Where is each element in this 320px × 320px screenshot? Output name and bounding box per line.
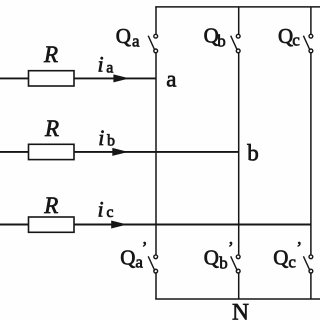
svg-text:a: a: [166, 67, 176, 92]
wire: leg 2 lower segment: [238, 273, 240, 299]
resistor R (phase a): [29, 71, 75, 86]
wire: phase b line: [0, 151, 239, 153]
svg-text:c: c: [288, 253, 296, 272]
wire: leg 1 upper segment: [155, 7, 157, 35]
svg-text:a: a: [132, 31, 140, 50]
svg-text:b: b: [247, 141, 258, 166]
switch Qa blade: [148, 36, 155, 51]
svg-text:N: N: [232, 299, 249, 320]
switch Qb' upper contact: [236, 255, 240, 259]
switch Qb upper contact: [236, 34, 240, 38]
switch Qc' blade: [303, 256, 310, 270]
wire: leg 1 middle segment: [155, 53, 157, 255]
wire: positive DC rail (top): [155, 6, 320, 8]
wire: leg 3 upper segment: [310, 7, 312, 35]
svg-text:Q: Q: [120, 245, 135, 269]
svg-text:Q: Q: [116, 24, 131, 48]
wire: negative DC rail (bottom, node N): [155, 298, 320, 300]
svg-text:’: ’: [296, 238, 302, 257]
svg-text:i: i: [98, 125, 104, 150]
switch Qa' blade: [148, 256, 155, 270]
svg-text:c: c: [292, 31, 300, 50]
wire: phase a line: [0, 77, 156, 79]
wire: leg 3 lower segment: [310, 273, 312, 299]
svg-text:i: i: [98, 52, 104, 77]
switch Qa upper contact: [154, 34, 158, 38]
svg-text:c: c: [106, 204, 113, 221]
wire: phase c line: [0, 224, 311, 226]
wire: leg 3 middle segment: [310, 53, 312, 255]
wire: leg 1 lower segment: [155, 273, 157, 299]
switch Qb' lower contact: [236, 269, 240, 273]
switch Qc upper contact: [309, 34, 313, 38]
svg-text:b: b: [107, 132, 115, 149]
switch Qc' lower contact: [309, 269, 313, 273]
wire: leg 2 middle segment: [238, 53, 240, 255]
svg-text:b: b: [219, 253, 228, 272]
arrow: current ic: [111, 221, 127, 229]
svg-text:a: a: [106, 60, 113, 77]
svg-text:Q: Q: [204, 245, 219, 269]
switch Qc blade: [303, 36, 310, 51]
svg-text:b: b: [217, 32, 226, 51]
arrow: current ib: [112, 148, 128, 156]
switch Qc' upper contact: [309, 255, 313, 259]
switch Qc lower contact: [309, 49, 313, 53]
svg-text:i: i: [98, 197, 104, 222]
switch Qa' upper contact: [154, 255, 158, 259]
resistor R (phase c): [29, 217, 75, 232]
svg-text:’: ’: [142, 238, 148, 257]
switch Qa' lower contact: [154, 269, 158, 273]
svg-text:R: R: [43, 193, 58, 218]
arrow: current ia: [113, 74, 129, 82]
switch Qb' blade: [231, 256, 238, 270]
switch Qb lower contact: [236, 49, 240, 53]
svg-text:Q: Q: [273, 245, 288, 269]
svg-text:Q: Q: [278, 24, 293, 48]
wire: leg 2 upper segment: [238, 7, 240, 35]
switch Qb blade: [231, 36, 238, 51]
svg-text:R: R: [44, 116, 59, 141]
resistor R (phase b): [29, 144, 75, 159]
switch Qa lower contact: [154, 49, 158, 53]
svg-text:R: R: [43, 42, 58, 67]
svg-text:’: ’: [228, 238, 234, 257]
